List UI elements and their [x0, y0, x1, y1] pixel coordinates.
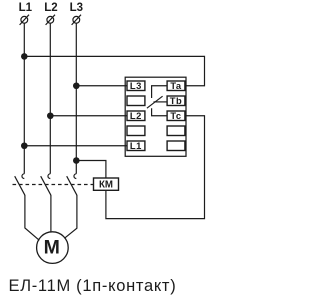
svg-text:L3: L3	[70, 2, 83, 14]
svg-text:L2: L2	[130, 110, 142, 121]
svg-text:M: M	[44, 236, 60, 258]
svg-text:L2: L2	[44, 2, 57, 14]
svg-text:L1: L1	[130, 140, 142, 151]
svg-text:Tb: Tb	[170, 95, 182, 106]
svg-text:КМ: КМ	[99, 180, 113, 191]
svg-text:Tc: Tc	[170, 110, 181, 121]
svg-text:Ta: Ta	[170, 80, 182, 91]
svg-text:L1: L1	[19, 2, 33, 14]
svg-text:L3: L3	[130, 80, 142, 91]
svg-text:ЕЛ-11М (1п-контакт): ЕЛ-11М (1п-контакт)	[9, 277, 177, 295]
